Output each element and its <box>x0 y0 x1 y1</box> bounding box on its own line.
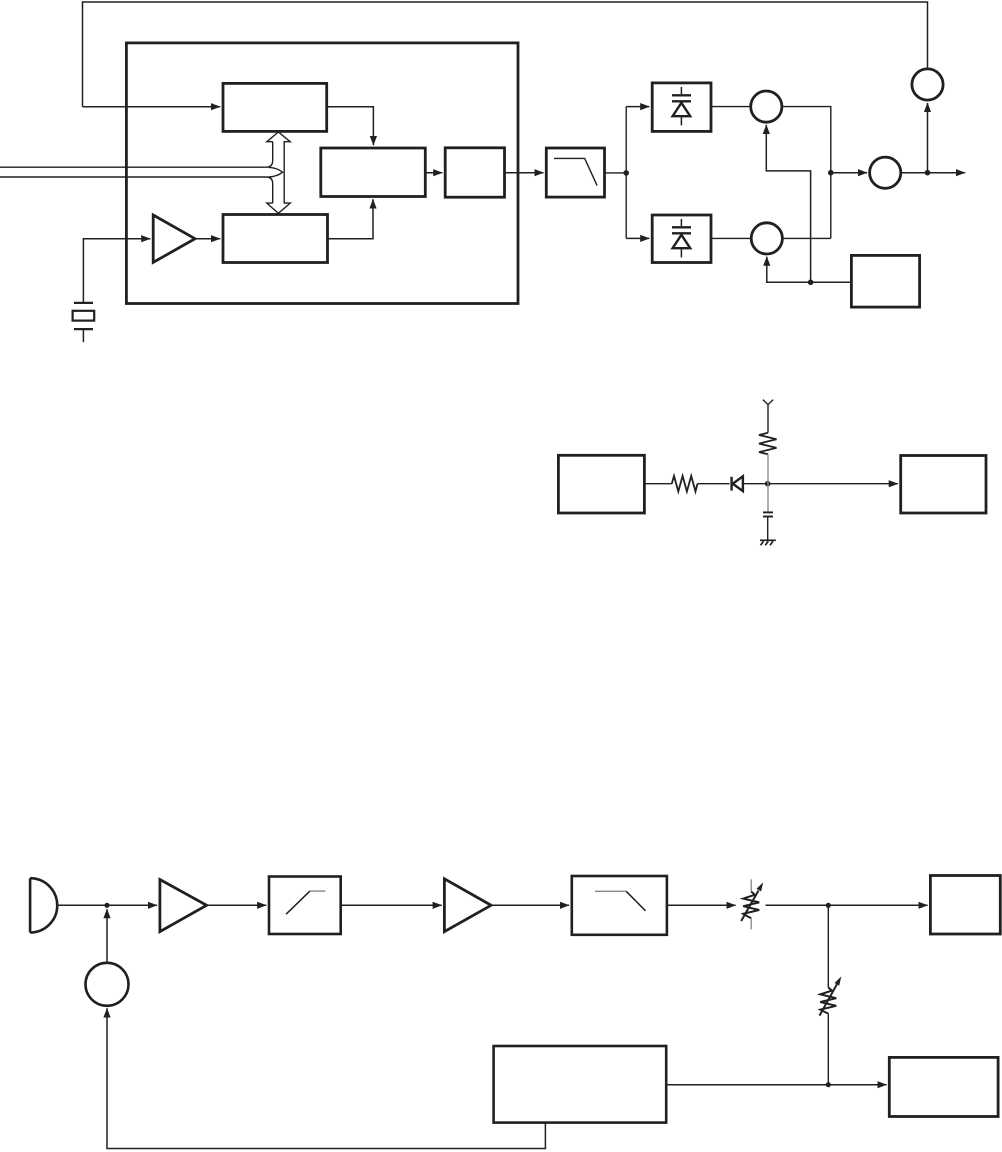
box B2 middle <box>321 148 426 197</box>
wire DSP feedback to summer <box>107 1008 545 1148</box>
box B4 <box>445 148 504 197</box>
mixer M1 circle <box>751 91 782 122</box>
bus lower line <box>0 177 273 203</box>
IC outer box <box>126 43 518 304</box>
wire VR2 down to line <box>827 1014 829 1085</box>
wire VB to mixer M2 <box>711 237 751 239</box>
node split vertical <box>625 107 627 239</box>
wire HPF to amp A3 <box>341 904 442 906</box>
filter LPF2 box <box>572 876 667 935</box>
wire A2 to HPF <box>207 904 267 906</box>
mixer M2 circle <box>751 223 782 254</box>
LPF2 response curve <box>595 890 626 892</box>
junction dot output <box>925 170 931 176</box>
wire mic to amp A2 <box>57 904 157 906</box>
microphone MIC <box>30 878 57 932</box>
box REG left <box>558 455 644 513</box>
varactor VB symbol <box>672 219 691 257</box>
variable resistor VR1 <box>741 879 763 929</box>
wire B4 to LPF1 <box>505 172 544 174</box>
junction dot bottom <box>826 1082 831 1087</box>
wire amp A1 to B3 <box>195 238 220 240</box>
box OUT top right <box>930 876 1000 935</box>
filter LPF1 box <box>546 148 604 197</box>
wire cap to ground <box>767 517 769 541</box>
capacitor C1 <box>763 512 773 516</box>
wire up to M4 <box>927 103 929 173</box>
wire CB to M1 <box>766 125 810 282</box>
wire to varactor VA <box>626 106 649 108</box>
wire resistor to diode <box>698 483 730 485</box>
diode D1 <box>732 476 743 491</box>
crystal X1 <box>73 303 95 342</box>
box BR bottom right <box>889 1057 998 1116</box>
LPF1 response curve <box>554 158 597 185</box>
wire into synth box <box>83 106 221 108</box>
bus brace <box>269 167 283 177</box>
supply terminal Y <box>763 400 773 433</box>
varactor VA box <box>652 83 711 131</box>
junction dot mic <box>104 903 109 908</box>
box B1 top <box>223 83 327 131</box>
wire to adder M3 <box>831 172 867 174</box>
double arrow outline <box>267 132 290 213</box>
wire LPF2 to VR1 <box>667 904 736 906</box>
wire sum to mic node <box>106 909 108 963</box>
junction dot VR2 tap <box>826 903 831 908</box>
box B3 bottom <box>223 215 328 263</box>
amp A3 <box>444 879 491 932</box>
wire B3 to B2 <box>328 199 374 238</box>
wire VA to mixer M1 <box>711 106 751 108</box>
junction dot <box>623 170 629 176</box>
wire gray node <box>767 454 769 512</box>
wire B2 to B4 <box>425 172 442 174</box>
bus upper line <box>0 142 273 168</box>
amp A1 <box>153 215 195 262</box>
wire B1 to B2 <box>327 107 374 146</box>
wire to varactor VB <box>626 237 649 239</box>
summer circle S1 <box>86 963 129 1006</box>
wire M2 out <box>782 237 830 239</box>
wire feedback loop top <box>83 2 928 107</box>
variable resistor VR2 <box>820 976 842 1015</box>
wire crystal to amp A1 <box>83 239 150 303</box>
HPF response curve <box>286 891 310 914</box>
amp A2 <box>160 880 207 932</box>
output wire <box>901 172 965 174</box>
resistor R1 <box>672 476 698 492</box>
wire node to box right <box>743 483 898 485</box>
mixer M4 circle <box>912 69 943 100</box>
resistor R2 pullup <box>759 433 777 454</box>
control box CB <box>851 255 919 307</box>
ground <box>760 540 776 545</box>
junction dot CB <box>808 280 814 286</box>
adder M3 circle <box>870 157 901 188</box>
varactor VA symbol <box>672 87 691 125</box>
wire tap down <box>827 905 829 987</box>
wire LPF1 to node <box>605 172 627 174</box>
wire CB to M2 <box>767 257 852 283</box>
wire DSP to box BR <box>666 1084 886 1086</box>
junction dot sum <box>828 170 834 176</box>
wire VR1 to OUT box <box>766 904 928 906</box>
box VREF right <box>901 456 986 514</box>
box DSP big <box>494 1046 667 1123</box>
wire A3 to LPF2 <box>491 904 569 906</box>
junction dot node <box>765 481 771 487</box>
filter HPF box <box>269 877 341 935</box>
varactor VB box <box>652 215 711 263</box>
wire M1 out <box>782 107 831 239</box>
wire REG to resistor <box>644 483 671 485</box>
